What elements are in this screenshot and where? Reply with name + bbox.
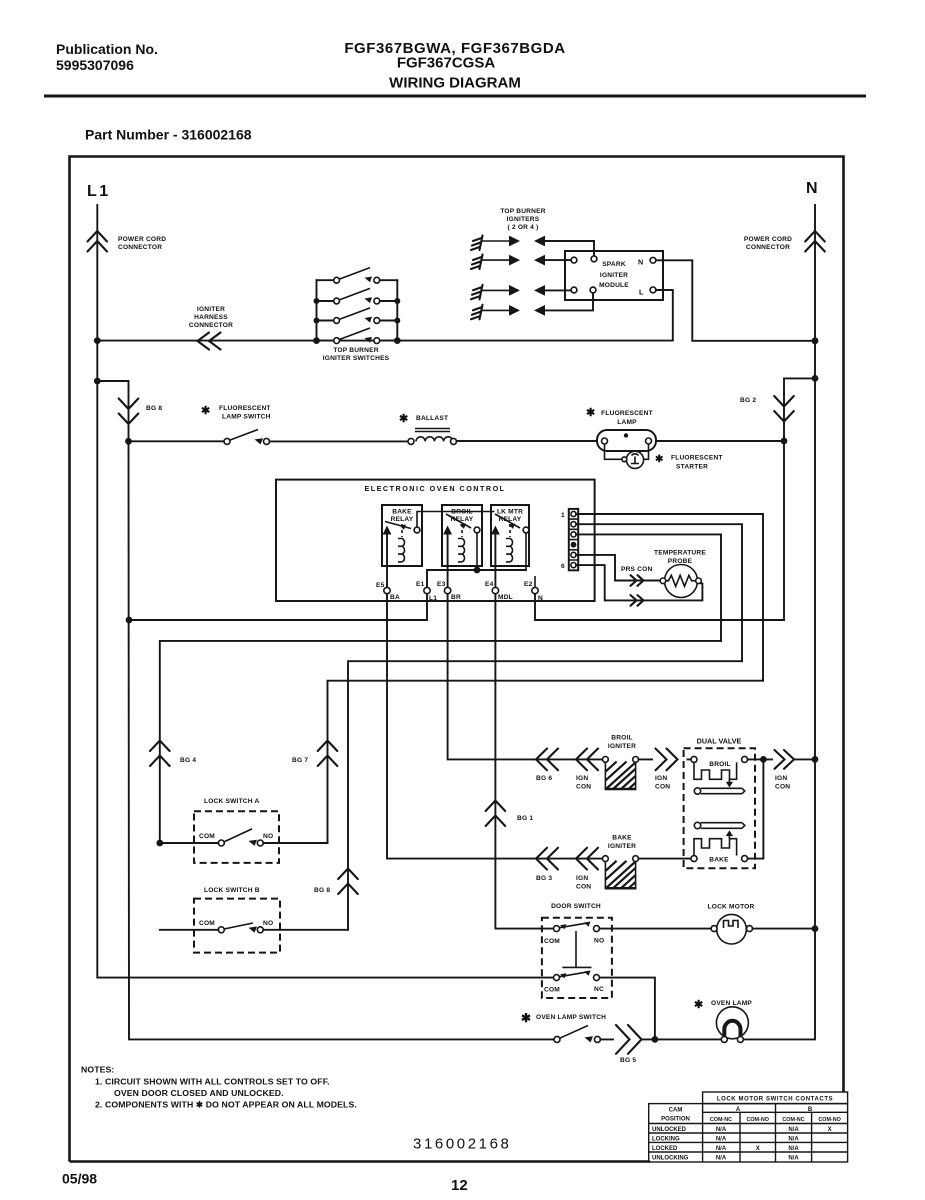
svg-text:BAKE: BAKE [612,835,632,842]
svg-text:A: A [736,1107,741,1113]
wire E2 to N via BG2 node [535,441,784,620]
svg-text:Part Number - 316002168: Part Number - 316002168 [85,127,252,143]
wire ballast to fluorescent lamp [457,440,598,442]
wire pin2 to riser [576,524,742,661]
wire pin3 to riser [576,534,721,641]
svg-text:E2: E2 [524,581,533,588]
node junction BG2 [781,438,788,445]
broil relay [442,505,482,590]
svg-text:BALLAST: BALLAST [416,415,448,422]
bake relay [382,505,422,590]
wire L1 rail [97,205,553,978]
temperature probe [654,550,706,598]
svg-text:COM-NC: COM-NC [710,1117,732,1123]
svg-text:FLUORESCENT: FLUORESCENT [219,405,271,412]
svg-text:COM: COM [544,938,560,945]
svg-text:LOCKING: LOCKING [652,1137,680,1143]
terminal E1 [416,581,437,602]
svg-text:COM: COM [544,987,560,994]
wire broil igniter to dual valve [639,758,692,760]
header model numbers [344,40,565,92]
terminal E2 [524,581,543,602]
svg-text:IGNITERS: IGNITERS [507,216,540,223]
svg-text:X: X [756,1146,760,1152]
eoc pin connector [561,509,578,570]
svg-text:BA: BA [390,594,400,601]
connector PRS CON [621,566,652,586]
svg-text:FLUORESCENT: FLUORESCENT [671,455,723,462]
svg-text:BR: BR [451,594,461,601]
igniter 3 [471,285,571,300]
svg-text:IGNITER: IGNITER [608,843,636,850]
svg-text:NOTES:: NOTES: [81,1065,114,1075]
relay wire bake contact to broil and lk mtr pivots [417,512,495,531]
node junction L1 rail E1 [126,617,133,624]
igniter 1 [471,236,594,256]
svg-text:CONNECTOR: CONNECTOR [189,322,233,329]
door switch [542,903,612,998]
svg-text:LAMP: LAMP [617,419,637,426]
diagram border frame [70,157,844,1162]
svg-text:NO: NO [594,938,604,945]
svg-text:X: X [828,1127,832,1133]
svg-text:FLUORESCENT: FLUORESCENT [601,410,653,417]
svg-text:COM: COM [199,920,215,927]
svg-text:CON: CON [775,784,790,791]
node junction fluorescent row [125,438,132,445]
wire lock motor to N rail [753,928,816,930]
connector BG 3 bake row [536,848,558,882]
svg-text:LOCK MOTOR: LOCK MOTOR [708,904,755,911]
svg-text:LK MTR: LK MTR [497,509,523,516]
svg-text:05/98: 05/98 [62,1171,97,1187]
node junction N rail lock motor [812,925,819,932]
svg-text:BG 1: BG 1 [517,815,533,822]
wire pin1 to riser [576,514,763,681]
svg-text:BROIL: BROIL [611,735,633,742]
wire N rail [743,205,815,1039]
svg-text:CON: CON [655,784,670,791]
svg-text:✱: ✱ [201,405,210,417]
lock motor [708,904,755,945]
header publication block [56,41,158,73]
fluorescent starter [622,451,723,470]
svg-text:N/A: N/A [716,1137,727,1143]
svg-text:POWER CORD: POWER CORD [744,236,792,243]
svg-text:TEMPERATURE: TEMPERATURE [654,550,706,557]
svg-text:IGN: IGN [775,775,787,782]
svg-text:ELECTRONIC OVEN CONTROL: ELECTRONIC OVEN CONTROL [364,484,505,493]
svg-text:E5: E5 [376,582,385,589]
svg-text:FGF367CGSA: FGF367CGSA [397,55,496,72]
connector BG 8 (down) [119,399,163,425]
svg-text:COM-NO: COM-NO [818,1117,840,1123]
svg-text:N/A: N/A [788,1146,799,1152]
svg-text:LOCK SWITCH B: LOCK SWITCH B [204,887,260,894]
svg-text:LOCKED: LOCKED [652,1146,678,1152]
svg-text:CAM: CAM [669,1108,683,1114]
svg-text:N/A: N/A [788,1156,799,1162]
svg-text:COM-NC: COM-NC [782,1117,804,1123]
lock switch A [156,798,327,863]
svg-text:( 2 OR 4 ): ( 2 OR 4 ) [508,224,539,231]
oven lamp switch [521,1011,606,1042]
svg-text:NO: NO [263,833,273,840]
connector probe return chevron [631,595,644,606]
svg-text:MODULE: MODULE [599,282,629,289]
svg-text:OVEN DOOR CLOSED AND UNLOCKED.: OVEN DOOR CLOSED AND UNLOCKED. [114,1088,284,1098]
wire lamp to BG2 node [656,440,784,442]
svg-text:SPARK: SPARK [602,261,626,268]
svg-text:L1: L1 [429,595,437,602]
igniter 2 [471,255,571,270]
wire E2 stub [534,576,536,587]
wire door switch NO to lock motor [600,928,712,930]
svg-text:N/A: N/A [788,1137,799,1143]
svg-text:BG 5: BG 5 [620,1057,636,1064]
svg-text:N/A: N/A [716,1156,727,1162]
svg-text:DOOR SWITCH: DOOR SWITCH [551,903,601,910]
svg-text:5995307096: 5995307096 [56,57,134,73]
svg-text:BAKE: BAKE [709,857,729,864]
svg-text:1: 1 [561,512,565,519]
svg-text:BROIL: BROIL [709,761,731,768]
svg-text:BG 8: BG 8 [146,405,162,412]
notes block [81,1065,357,1110]
svg-text:PROBE: PROBE [668,558,693,565]
svg-text:DUAL VALVE: DUAL VALVE [697,737,742,746]
connector IGN CON broil in [576,749,598,791]
svg-text:LOCK MOTOR SWITCH CONTACTS: LOCK MOTOR SWITCH CONTACTS [717,1097,833,1103]
top burner igniter switches bank [313,268,401,362]
wire BG2 riser [784,378,815,441]
wire E1 to L1 rail [129,594,427,620]
fluorescent lamp [586,407,656,459]
svg-text:NC: NC [594,986,604,993]
svg-text:RELAY: RELAY [391,516,414,523]
oven lamp [694,999,752,1042]
node junction N rail main [812,337,819,344]
connector BG 4 (up) [150,741,196,767]
svg-text:IGNITER: IGNITER [197,306,225,313]
node junction N rail BG2 [812,375,819,382]
svg-text:2. COMPONENTS WITH ✱ DO NOT: 2. COMPONENTS WITH ✱ DO NOT APPEAR ON AL… [95,1100,357,1110]
wire lock circuit row B (pin3) [160,641,721,843]
svg-text:IGNITER: IGNITER [608,743,636,750]
svg-text:POSITION: POSITION [661,1117,690,1123]
svg-text:6: 6 [561,563,565,570]
wire valve to N rail [763,758,815,760]
wire fluorescent rail down to oven lamp switch [129,441,555,1039]
wire bake igniter to dual valve [639,858,692,860]
svg-text:UNLOCKED: UNLOCKED [652,1127,687,1133]
svg-text:B: B [808,1107,813,1113]
svg-text:NO: NO [263,920,273,927]
svg-text:HARNESS: HARNESS [194,314,228,321]
ballast [270,413,457,444]
wire dual valve outputs join [748,759,764,858]
svg-text:CONNECTOR: CONNECTOR [746,244,790,251]
svg-text:TOP BURNER: TOP BURNER [333,347,378,354]
svg-text:STARTER: STARTER [676,464,708,471]
wire E5 BA to bake igniter row [387,594,602,859]
connector IGN CON out [775,750,795,791]
svg-text:✱: ✱ [655,454,664,465]
svg-text:WIRING DIAGRAM: WIRING DIAGRAM [389,75,521,92]
svg-text:MDL: MDL [498,594,513,601]
svg-text:BG 8: BG 8 [314,887,330,894]
svg-text:UNLOCKING: UNLOCKING [652,1156,689,1162]
lock motor switch contacts table [649,1092,848,1162]
terminal E5 [376,582,400,601]
bake igniter [603,835,639,889]
electronic oven control box [276,480,595,601]
wire E3 BR to broil igniter row [448,594,603,760]
terminal E4 [485,581,513,601]
svg-text:✱: ✱ [586,407,595,419]
spark igniter module box [565,251,663,300]
svg-text:1. CIRCUIT SHOWN WITH ALL CON: 1. CIRCUIT SHOWN WITH ALL CONTROLS SET T… [95,1077,330,1087]
connector IGN CON broil out [655,749,678,791]
svg-text:COM-NO: COM-NO [746,1117,768,1123]
node junction valve output [760,756,767,763]
svg-text:IGN: IGN [655,775,667,782]
node junction L1 main [94,337,101,344]
wire lock circuit row D (pin1) [328,681,764,843]
svg-text:POWER CORD: POWER CORD [118,236,166,243]
wire main L1 horizontal [97,290,673,341]
wire pin6 to probe return [576,565,702,600]
svg-text:BG 6: BG 6 [536,775,552,782]
svg-text:N/A: N/A [788,1127,799,1133]
wire lock circuit row C (pin2) [348,661,742,930]
node junction L1 rail lamp branch [94,378,101,385]
svg-text:COM: COM [199,833,215,840]
svg-text:IGNITER SWITCHES: IGNITER SWITCHES [323,355,390,362]
svg-text:N/A: N/A [716,1127,727,1133]
svg-text:LOCK SWITCH A: LOCK SWITCH A [204,798,260,805]
wire relay contacts common to E1 [427,570,526,588]
svg-text:Publication No.: Publication No. [56,41,158,57]
svg-text:✱: ✱ [399,413,408,425]
svg-text:L: L [639,288,644,297]
power cord connector N [744,231,825,252]
svg-text:N: N [638,258,643,267]
svg-text:LAMP SWITCH: LAMP SWITCH [222,414,271,421]
svg-text:BAKE: BAKE [392,509,412,516]
top burner igniters label [500,208,545,231]
lk mtr relay [491,505,529,590]
svg-text:E4: E4 [485,581,494,588]
wire BG8 branch to fluorescent row [97,381,128,441]
wire pin5 to probe [576,555,660,581]
svg-text:TOP BURNER: TOP BURNER [500,208,545,215]
header rule [44,95,866,98]
lock switch B [160,887,348,953]
svg-text:CON: CON [576,884,591,891]
power cord connector L1 [88,231,167,252]
svg-text:PRS CON: PRS CON [621,566,652,573]
connector BG 1 (up) [486,801,534,827]
connector BG 8 lower (up) [314,869,358,895]
dual valve [684,737,755,869]
igniter harness connector [189,306,233,350]
svg-text:N/A: N/A [716,1146,727,1152]
node junction oven lamp row [652,1036,659,1043]
wire door NC to oven lamp row [600,978,655,1040]
terminal E3 [437,581,461,601]
svg-text:IGN: IGN [576,875,588,882]
svg-text:L1: L1 [87,183,111,200]
svg-text:BROIL: BROIL [451,509,473,516]
connector IGN CON bake in [576,848,598,891]
svg-text:CONNECTOR: CONNECTOR [118,244,162,251]
wire spark module N to N rail [656,260,815,341]
igniter 4 [471,293,593,319]
svg-text:N: N [538,595,543,602]
svg-text:IGNITER: IGNITER [600,272,628,279]
svg-text:BG 2: BG 2 [740,397,756,404]
svg-text:E1: E1 [416,581,425,588]
connector BG 7 (up) [292,741,337,767]
svg-text:N: N [806,180,818,197]
svg-text:OVEN LAMP: OVEN LAMP [711,1000,752,1007]
svg-text:IGN: IGN [576,775,588,782]
svg-text:OVEN LAMP SWITCH: OVEN LAMP SWITCH [536,1014,606,1021]
node junction broil contact [474,567,481,574]
fluorescent lamp switch [129,405,271,444]
svg-text:RELAY: RELAY [451,516,474,523]
wire E4 MDL to door switch [495,594,553,929]
wire switch to lamp [600,1038,721,1040]
connector BG 2 (down) [740,396,794,422]
svg-text:316002168: 316002168 [413,1136,511,1153]
connector BG 6 broil row [536,749,558,783]
svg-text:BG 4: BG 4 [180,757,196,764]
connector BG 5 (right) [616,1025,642,1064]
node junction N rail valve [812,756,819,763]
svg-text:✱: ✱ [521,1011,531,1025]
svg-text:12: 12 [451,1177,468,1194]
svg-text:BG 7: BG 7 [292,757,308,764]
svg-text:BG 3: BG 3 [536,875,552,882]
svg-text:E3: E3 [437,581,446,588]
svg-text:CON: CON [576,784,591,791]
svg-text:✱: ✱ [694,999,703,1011]
broil igniter [603,735,639,790]
